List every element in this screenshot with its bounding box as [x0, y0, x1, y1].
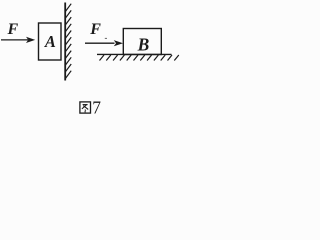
svg-text:F: F	[89, 21, 101, 38]
svg-text:7: 7	[92, 98, 101, 118]
wall hatching	[65, 4, 71, 79]
force arrow F (right)	[85, 40, 123, 46]
caption 图 (drawn glyph)	[80, 102, 91, 113]
svg-text:B: B	[137, 34, 150, 54]
svg-text:A: A	[44, 32, 56, 51]
svg-text:F: F	[7, 21, 19, 38]
noise speck above right arrow	[105, 37, 107, 40]
ground line	[97, 53, 172, 55]
force arrow F (left)	[1, 37, 35, 43]
block A	[39, 23, 62, 60]
ground hatching	[100, 55, 179, 61]
block B	[123, 29, 161, 55]
wall line	[64, 3, 66, 81]
